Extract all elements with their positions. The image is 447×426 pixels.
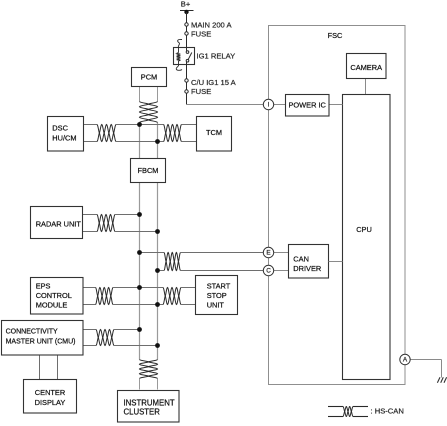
svg-text:START: START (207, 281, 231, 290)
svg-text:CLUSTER: CLUSTER (124, 407, 161, 416)
svg-text:CPU: CPU (356, 225, 372, 234)
svg-text:PCM: PCM (141, 73, 157, 82)
svg-text:TCM: TCM (206, 128, 222, 137)
svg-text:C/U IG1 15 A: C/U IG1 15 A (191, 78, 237, 87)
svg-text:C: C (266, 268, 271, 275)
svg-text:DISPLAY: DISPLAY (35, 398, 66, 407)
svg-text:FUSE: FUSE (191, 29, 211, 38)
svg-text:A: A (403, 357, 408, 364)
svg-text:DSC: DSC (52, 124, 68, 133)
svg-text:UNIT: UNIT (207, 300, 225, 309)
svg-text:CAN: CAN (293, 254, 309, 263)
svg-text:E: E (266, 250, 270, 257)
svg-text:HU/CM: HU/CM (52, 134, 76, 143)
svg-text:CENTER: CENTER (35, 388, 65, 397)
svg-text:STOP: STOP (207, 291, 227, 300)
svg-text:MASTER UNIT (CMU): MASTER UNIT (CMU) (6, 338, 76, 345)
svg-text:B+: B+ (181, 0, 191, 8)
svg-text:RADAR UNIT: RADAR UNIT (36, 219, 82, 228)
svg-text:CAMERA: CAMERA (350, 63, 382, 72)
svg-text:MODULE: MODULE (36, 300, 68, 309)
svg-text:CONTROL: CONTROL (36, 291, 72, 300)
svg-text:EPS: EPS (36, 281, 51, 290)
svg-text:: HS-CAN: : HS-CAN (371, 407, 404, 416)
svg-text:INSTRUMENT: INSTRUMENT (124, 398, 175, 407)
svg-text:FBCM: FBCM (138, 166, 159, 175)
svg-text:FUSE: FUSE (191, 87, 211, 96)
svg-text:IG1 RELAY: IG1 RELAY (197, 52, 236, 61)
svg-text:FSC: FSC (328, 31, 343, 40)
svg-text:MAIN 200 A: MAIN 200 A (191, 21, 232, 30)
svg-text:POWER IC: POWER IC (289, 101, 327, 110)
svg-text:CONNECTIVITY: CONNECTIVITY (6, 329, 58, 336)
svg-text:I: I (268, 102, 270, 109)
svg-text:DRIVER: DRIVER (293, 264, 321, 273)
